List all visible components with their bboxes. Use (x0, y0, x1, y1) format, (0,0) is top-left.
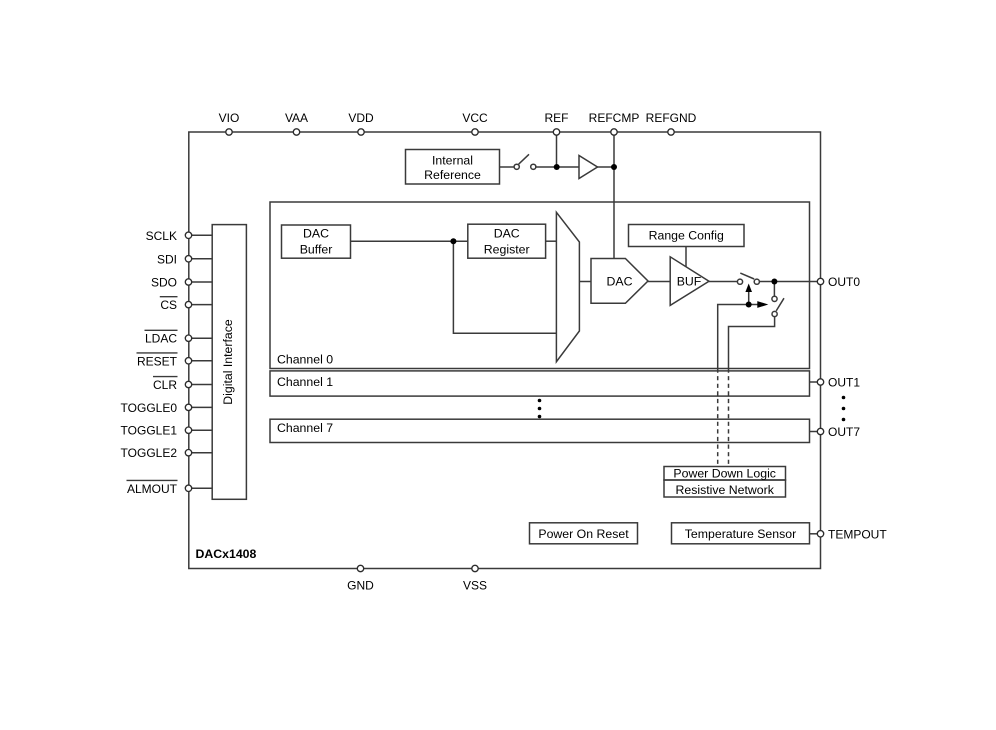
pin TOGGLE1 (185, 427, 191, 433)
wire range config to BUF (685, 247, 687, 267)
pin OUT0 (817, 278, 823, 284)
pin CS (185, 301, 191, 307)
svg-text:TOGGLE0: TOGGLE0 (121, 401, 178, 415)
svg-text:Channel 1: Channel 1 (277, 375, 333, 389)
wire pin CLR (189, 384, 212, 386)
wire internal reference to switch (500, 166, 514, 168)
svg-text:RESET: RESET (137, 354, 178, 368)
svg-text:SDI: SDI (157, 252, 177, 266)
wire pin SDI (189, 258, 212, 260)
wire feedback junction to mux lower input (453, 241, 556, 333)
svg-text:DAC: DAC (494, 227, 520, 241)
svg-text:SCLK: SCLK (146, 229, 177, 243)
dots left ellipsis (538, 399, 542, 403)
node REF junction (554, 164, 560, 170)
chip boundary DACx1408 (189, 132, 821, 569)
DAC block pentagon (591, 259, 648, 304)
arrowhead right (757, 301, 768, 308)
overline RESET (137, 352, 178, 354)
svg-text:Temperature Sensor: Temperature Sensor (685, 527, 796, 541)
pin VIO (226, 129, 232, 135)
node OUT0 junction (771, 279, 777, 285)
arrowhead up (745, 284, 752, 293)
pin GND (357, 565, 363, 571)
svg-text:CLR: CLR (153, 378, 177, 392)
overline ALMOUT (127, 479, 178, 481)
svg-text:Digital Interface: Digital Interface (221, 319, 235, 405)
pin RESET (185, 358, 191, 364)
svg-text:Register: Register (484, 242, 530, 256)
wire DAC buffer to DAC register (351, 240, 468, 242)
wire REFCMP vertical (613, 132, 615, 259)
pin SDI (185, 256, 191, 262)
pin VAA (293, 129, 299, 135)
arrow control right (749, 304, 758, 306)
pin REF (553, 129, 559, 135)
wire buffer to REFCMP node (598, 166, 615, 168)
resistive network box (664, 480, 786, 497)
DAC buffer box (282, 225, 351, 258)
DAC register box (468, 224, 546, 258)
pin VSS (472, 565, 478, 571)
wire pin LDAC (189, 337, 212, 339)
wire switch to OUT0 (760, 281, 821, 283)
switch S2 output (737, 279, 742, 284)
svg-text:GND: GND (347, 578, 374, 592)
svg-text:ALMOUT: ALMOUT (127, 482, 178, 496)
svg-text:VSS: VSS (463, 578, 487, 592)
svg-text:Range Config: Range Config (649, 229, 724, 243)
wire mux to DAC (579, 281, 591, 283)
svg-text:TEMPOUT: TEMPOUT (828, 528, 887, 542)
svg-text:Resistive Network: Resistive Network (675, 483, 774, 497)
svg-text:REFCMP: REFCMP (589, 111, 640, 125)
pin OUT1 (817, 379, 823, 385)
power on reset box (530, 523, 638, 544)
op-amp BUF output buffer (670, 257, 709, 306)
node DAC buffer output junction (450, 238, 456, 244)
pin TOGGLE0 (185, 404, 191, 410)
svg-text:Internal: Internal (432, 154, 473, 168)
svg-text:Channel 0: Channel 0 (277, 353, 333, 367)
svg-text:Power Down Logic: Power Down Logic (673, 467, 776, 481)
pin TOGGLE2 (185, 450, 191, 456)
wire OUT7 (810, 431, 821, 433)
svg-text:Power On Reset: Power On Reset (538, 527, 629, 541)
pin SDO (185, 279, 191, 285)
svg-text:Channel 7: Channel 7 (277, 421, 333, 435)
svg-text:VIO: VIO (219, 111, 240, 125)
wire REF vertical (556, 132, 558, 167)
svg-text:TOGGLE1: TOGGLE1 (121, 424, 178, 438)
svg-text:REFGND: REFGND (646, 111, 697, 125)
overline LDAC (145, 329, 178, 331)
svg-text:SDO: SDO (151, 276, 177, 290)
svg-text:VAA: VAA (285, 111, 308, 125)
switch S1 internal reference enable (514, 164, 519, 169)
svg-text:Reference: Reference (424, 168, 481, 182)
pin OUT7 (817, 428, 823, 434)
pin REFCMP (611, 129, 617, 135)
wire TEMPOUT (810, 533, 821, 535)
pin LDAC (185, 335, 191, 341)
pin VCC (472, 129, 478, 135)
dots right ellipsis (842, 396, 846, 400)
dashed control line right (728, 369, 730, 467)
svg-text:BUF: BUF (677, 275, 702, 289)
wire BUF to switch (709, 281, 738, 283)
op-amp reference buffer (579, 156, 598, 179)
internal reference box (406, 150, 500, 185)
wire pulldown switch to resistive network (729, 317, 775, 369)
dashed control line left (717, 369, 719, 467)
pin REFGND (668, 129, 674, 135)
svg-text:CS: CS (160, 298, 177, 312)
pin VDD (358, 129, 364, 135)
pin SCLK (185, 232, 191, 238)
svg-text:OUT7: OUT7 (828, 425, 860, 439)
wire pin ALMOUT (189, 487, 212, 489)
svg-text:OUT0: OUT0 (828, 275, 860, 289)
wire switch to buffer (535, 166, 579, 168)
svg-text:OUT1: OUT1 (828, 376, 860, 390)
mux trapezoid (556, 212, 579, 361)
wire junction to pulldown switch (773, 282, 775, 297)
channel 7 box (270, 419, 810, 442)
channel 0 box (270, 202, 810, 369)
wire pin TOGGLE0 (189, 406, 212, 408)
wire pin RESET (189, 360, 212, 362)
wire control node to dashed line left (718, 305, 749, 369)
pin TEMPOUT (817, 531, 823, 537)
temperature sensor box (672, 523, 810, 544)
svg-text:Buffer: Buffer (300, 242, 333, 256)
wire DAC register to mux (546, 240, 557, 242)
power down logic box (664, 467, 786, 481)
arrow control up (748, 292, 750, 305)
overline CLR (153, 376, 178, 378)
channel 1 box (270, 371, 810, 396)
pin CLR (185, 381, 191, 387)
svg-text:DACx1408: DACx1408 (196, 547, 257, 561)
wire OUT1 (810, 381, 821, 383)
digital interface box (212, 225, 246, 500)
svg-text:DAC: DAC (607, 275, 633, 289)
wire DAC to BUF (648, 281, 670, 283)
overline CS (160, 296, 178, 298)
range config box (629, 225, 745, 247)
svg-text:LDAC: LDAC (145, 332, 177, 346)
wire pin TOGGLE1 (189, 429, 212, 431)
svg-text:VCC: VCC (462, 111, 488, 125)
node REFCMP junction (611, 164, 617, 170)
wire pin SDO (189, 281, 212, 283)
pin ALMOUT (185, 485, 191, 491)
switch S3 pulldown (772, 296, 777, 301)
wire pin TOGGLE2 (189, 452, 212, 454)
svg-text:REF: REF (545, 111, 569, 125)
wire pin CS (189, 304, 212, 306)
node control junction (746, 302, 752, 308)
svg-text:TOGGLE2: TOGGLE2 (121, 446, 178, 460)
svg-text:DAC: DAC (303, 227, 329, 241)
svg-text:VDD: VDD (348, 111, 374, 125)
wire pin SCLK (189, 234, 212, 236)
